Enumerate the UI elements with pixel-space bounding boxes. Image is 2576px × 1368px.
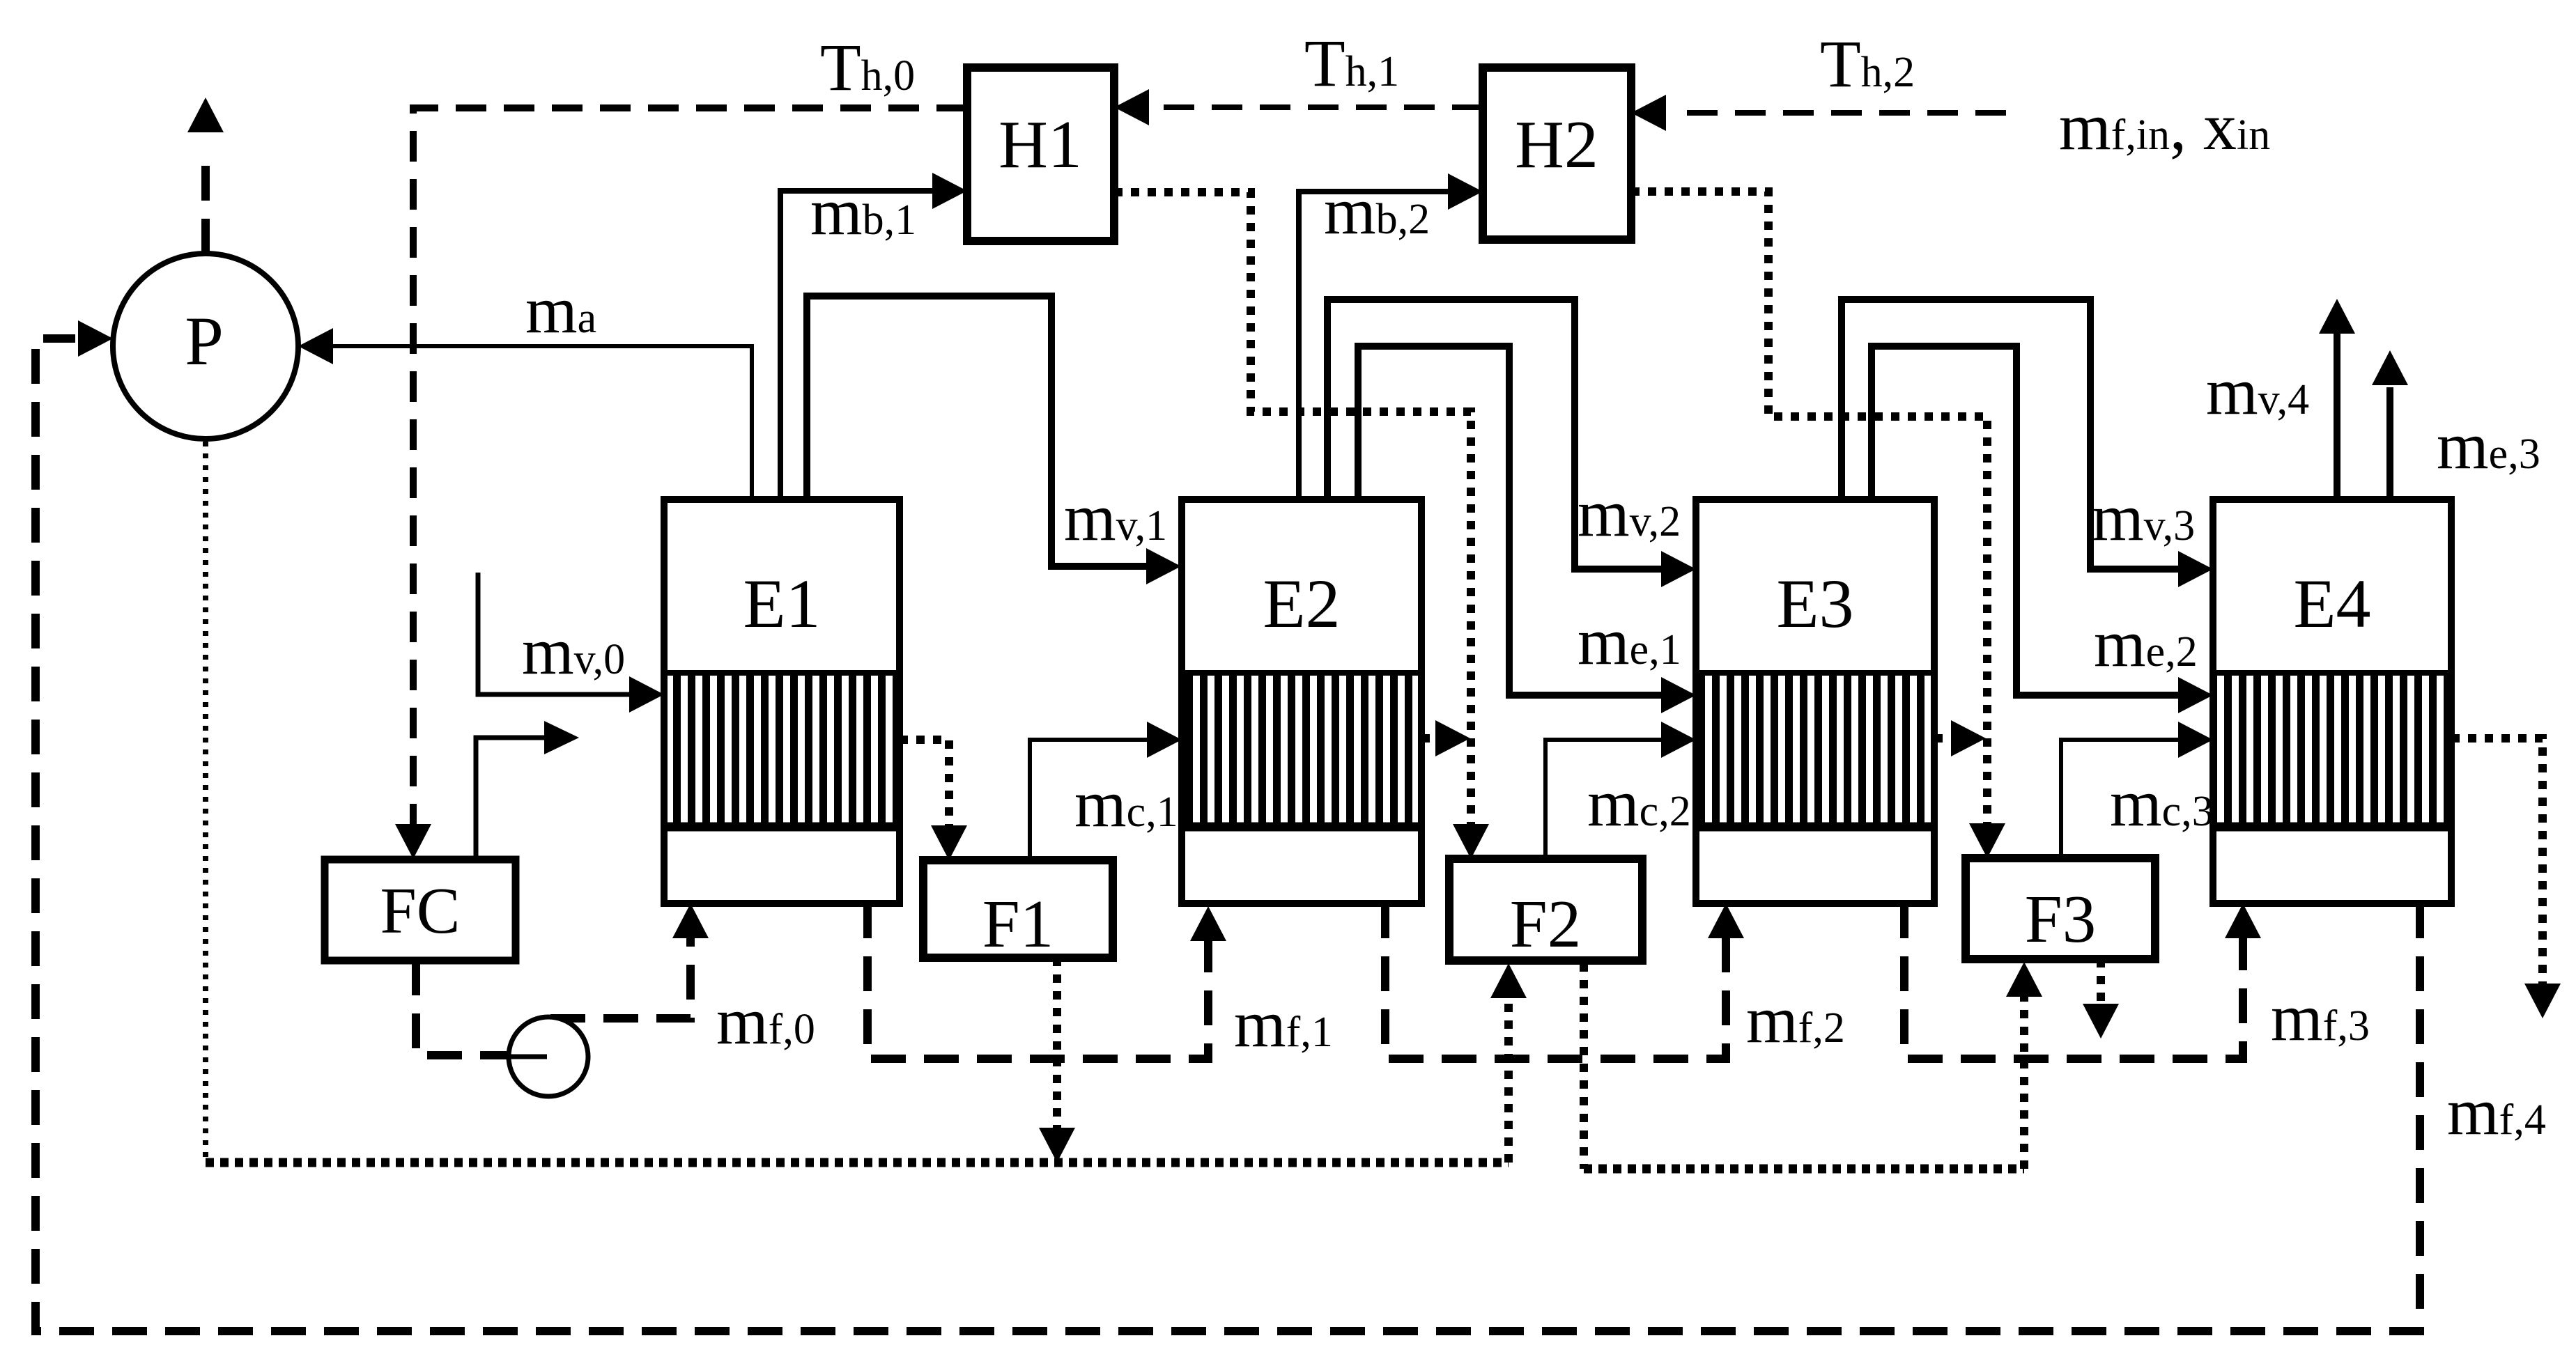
wire F3 distillate product dotted out <box>2083 959 2119 1039</box>
svg-text:E4: E4 <box>2293 565 2370 642</box>
evaporator E4 <box>2213 499 2451 903</box>
wire m_v,4 vent arrow from E4 top <box>2319 299 2355 499</box>
wire m_f,1 brine dashed from E1 bottom to E2 bottom <box>867 903 1226 1059</box>
control valve circle <box>509 1017 588 1096</box>
pump P <box>113 254 298 439</box>
wire H1 condensate dotted to F2 top <box>1114 192 1489 859</box>
wire m_v,0 steam supply into E1 left <box>478 573 664 713</box>
wire distillate collection line dotted <box>206 1163 2024 1169</box>
wire m_v,3 from E3 top to E4 left <box>1842 300 2213 587</box>
wire F3 distillate riser dotted <box>2006 962 2042 1169</box>
flash box F2 <box>1449 859 1642 961</box>
svg-text:E2: E2 <box>1263 565 1340 642</box>
wire m_a from E1 top to pump P <box>298 328 752 499</box>
wire E3 condensate dotted arrow <box>1934 720 1986 756</box>
wire T_h,0 dashed from H1 to FC <box>395 108 967 859</box>
evaporator E3 <box>1696 499 1934 903</box>
wire F1 distillate drop dotted <box>1039 958 1075 1163</box>
wire m_f,2 brine dashed from E2 bottom to E3 bottom <box>1385 903 1744 1059</box>
heater H2 <box>1483 68 1631 240</box>
wire m_c,3 from F3 top to E4 left <box>2061 722 2213 858</box>
wire F2 distillate drop dotted <box>1580 963 1588 1169</box>
evaporator E2 <box>1182 499 1421 903</box>
wire E4 condensate dotted product out <box>2451 738 2561 1018</box>
wire pump P exhaust dashed arrow <box>187 98 224 254</box>
wire H2 condensate dotted to F3 top <box>1631 192 2005 858</box>
wire m_v,1 from E1 top to E2 left <box>807 296 1181 584</box>
heater H1 <box>967 68 1114 241</box>
wire m_e,1 from E2 top to E3 left <box>1358 346 1696 713</box>
svg-text:F3: F3 <box>2025 882 2096 956</box>
wire F2 distillate riser dotted <box>1490 963 1527 1163</box>
wire m_e,3 vent arrow from E4 top <box>2372 350 2408 499</box>
wire m_f,4 brine blowdown loop E4 to P <box>36 320 2420 1331</box>
svg-text:E1: E1 <box>743 565 820 642</box>
wire m_c,2 from F2 top to E3 left <box>1545 722 1696 859</box>
svg-text:E3: E3 <box>1776 565 1853 642</box>
wire m_f,3 brine dashed from E3 bottom to E4 bottom <box>1904 903 2261 1059</box>
wire E2 condensate dotted arrow <box>1421 720 1470 756</box>
wire T_h,1 dashed from H2 to H1 <box>1114 89 1483 125</box>
wire m_v,2 from E2 top to E3 left <box>1327 300 1696 587</box>
flow controller FC <box>325 860 516 961</box>
wire pump P distillate drop dotted <box>203 442 208 1160</box>
wire FC control output arrow <box>476 721 579 860</box>
flash box F3 <box>1966 858 2155 959</box>
evaporator E1 <box>664 499 900 903</box>
flash box F1 <box>923 860 1113 961</box>
svg-text:H2: H2 <box>1515 107 1598 182</box>
wire m_f,0 feed dashed from valve into E1 bottom <box>550 903 709 1018</box>
wire m_c,1 from F1 top to E2 left <box>1030 722 1182 860</box>
wire m_b,2 from E2 top to heater H2 <box>1299 173 1483 499</box>
wire m_b,1 from E1 top to heater H1 <box>780 173 967 499</box>
svg-text:P: P <box>185 302 224 380</box>
svg-text:F1: F1 <box>982 887 1054 961</box>
wire FC to control valve dashed <box>416 961 507 1055</box>
wire m_e,2 from E3 top to E4 left <box>1872 346 2213 713</box>
wire T_h,2 dashed into H2 <box>1631 95 2006 131</box>
wire E1 condensate dotted to F1 top <box>900 740 967 860</box>
svg-text:F2: F2 <box>1510 887 1581 961</box>
svg-text:FC: FC <box>380 875 461 947</box>
svg-text:H1: H1 <box>998 107 1082 182</box>
